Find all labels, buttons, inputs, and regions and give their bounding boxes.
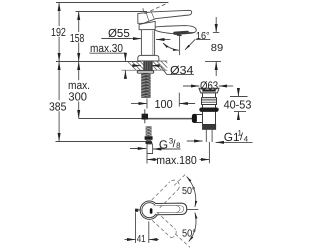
label 50 lower xyxy=(182,228,196,239)
drain clamp body xyxy=(202,98,217,105)
dimension 158 line xyxy=(78,12,80,33)
deck top reference line xyxy=(56,61,140,63)
rod knob xyxy=(142,114,148,120)
center slot xyxy=(150,208,153,214)
16 deg leader xyxy=(185,39,195,50)
lever top view inner xyxy=(157,206,184,213)
svg-text:100: 100 xyxy=(155,98,174,111)
dimension 192 line xyxy=(58,3,60,27)
aerator xyxy=(173,31,189,36)
swivel arc upper xyxy=(187,177,196,207)
ghost lever dashed lower xyxy=(152,212,190,247)
svg-text:300: 300 xyxy=(68,90,87,103)
label 192 xyxy=(50,26,68,39)
label G1 1/4 xyxy=(187,128,253,144)
body circle inner xyxy=(142,203,157,218)
dimension 100 xyxy=(131,93,195,109)
label 16deg xyxy=(186,31,210,42)
body circle outer xyxy=(140,201,158,219)
deck cross-section hatch xyxy=(122,61,168,70)
faucet body column xyxy=(141,30,154,56)
ref line 385 bottom xyxy=(56,141,147,143)
svg-text:385: 385 xyxy=(49,100,67,113)
swivel arc lower xyxy=(189,213,196,242)
raised lever dashed xyxy=(143,3,169,14)
svg-text:40-53: 40-53 xyxy=(224,99,252,112)
drain side port xyxy=(195,115,203,123)
svg-text:max.180: max.180 xyxy=(156,154,197,167)
ghost lever dashed upper xyxy=(152,174,186,208)
angle group: stream vertical line xyxy=(163,35,195,55)
label G3/8 xyxy=(130,136,181,151)
ref line 158 level xyxy=(76,11,148,13)
drain neck xyxy=(203,93,216,98)
svg-text:Ø63: Ø63 xyxy=(200,79,218,92)
hose nut xyxy=(145,136,153,140)
svg-text:50°: 50° xyxy=(182,186,196,197)
pop-up rod to drain xyxy=(145,118,193,120)
drain flange slot xyxy=(202,89,215,91)
dimension 41 xyxy=(125,212,159,243)
label 50 upper xyxy=(182,186,196,197)
faucet top cap xyxy=(139,21,155,29)
dimension max.180 xyxy=(147,151,209,164)
pop-up rod horizontal xyxy=(79,118,145,120)
svg-text:Ø55: Ø55 xyxy=(108,27,130,40)
svg-text:158: 158 xyxy=(70,32,84,45)
drain body xyxy=(203,105,216,125)
drain tailpipe xyxy=(206,129,212,163)
drain thread square xyxy=(203,125,216,130)
flexible hose braided xyxy=(146,126,152,138)
dimension 385 line xyxy=(58,62,60,101)
threaded stud xyxy=(141,73,150,98)
svg-text:41: 41 xyxy=(137,234,146,245)
svg-text:89: 89 xyxy=(211,43,224,54)
lever top view outer xyxy=(155,203,187,215)
stud through deck xyxy=(143,61,153,70)
label max.30 with elbow leader xyxy=(89,42,125,77)
label max300 xyxy=(67,79,91,103)
pop-up vertical rod xyxy=(144,109,146,123)
angle arc xyxy=(163,43,179,50)
centerline segment right of lever xyxy=(187,209,198,211)
hose end connector xyxy=(147,144,153,154)
ref line top (192 level) xyxy=(56,2,168,4)
svg-text:50°: 50° xyxy=(182,228,196,239)
svg-text:192: 192 xyxy=(51,26,66,39)
drain flange xyxy=(199,88,219,93)
svg-text:G11/4: G11/4 xyxy=(224,128,249,144)
label 158 xyxy=(69,32,86,45)
label Ø63 with arrows xyxy=(183,79,233,92)
dimension max300 line xyxy=(78,62,80,81)
label Ø34 with arrows xyxy=(132,64,194,77)
hose collar xyxy=(146,140,153,144)
dimension 40-53 xyxy=(230,89,248,118)
faucet base flange xyxy=(138,55,159,61)
label 385 xyxy=(48,100,68,113)
dimension 89 xyxy=(205,17,221,76)
faucet spout xyxy=(155,26,196,34)
drain O-ring xyxy=(199,108,218,112)
threaded shank washer xyxy=(137,71,154,73)
rod ball knob xyxy=(192,114,197,123)
left tab xyxy=(135,209,141,212)
svg-text:16°: 16° xyxy=(196,31,210,42)
label Ø55 with leader xyxy=(101,27,170,40)
handle root and lever xyxy=(138,10,192,23)
